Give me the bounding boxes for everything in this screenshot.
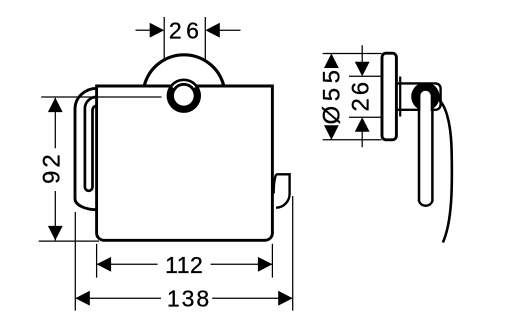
front view: right arm end piece	[276, 174, 290, 207]
front view: knob inner circle	[174, 86, 194, 106]
dim 138: extension lines	[74, 212, 76, 311]
side view: guard wire	[438, 99, 452, 243]
front view: right arm end inner edge	[274, 174, 277, 193]
front view: left roll-holder hook inner slot	[85, 97, 97, 191]
side view: wall plate	[382, 53, 396, 140]
front view: knob white separation arc	[173, 82, 195, 87]
side view: hub housing	[398, 83, 441, 109]
dim 92: bottom extension line	[39, 240, 99, 242]
dim 138: left arrow	[75, 291, 90, 306]
dim 92: top arrow	[48, 98, 63, 113]
dim 112: extension lines	[96, 244, 98, 278]
front view: spindle line behind cover (92 top extension)	[41, 96, 161, 98]
side view: arm	[419, 94, 432, 206]
dim 26 top: extension lines	[163, 17, 165, 60]
dim 92: dimension line	[54, 98, 56, 149]
dim 138: line segments	[75, 297, 161, 299]
dim 112: right arrow	[258, 257, 273, 272]
dim 26 side: bottom tail and arrow	[361, 131, 363, 147]
dim 92: bottom arrow	[48, 226, 63, 241]
front view: dome arc over spindle	[144, 55, 223, 85]
dim Ø55: top arrow	[324, 54, 339, 69]
svg-text:138: 138	[167, 286, 211, 312]
dim 26 top: right tail and arrow	[219, 29, 241, 31]
dim Ø55: line segments	[330, 54, 332, 68]
dim 26 side: extension lines	[349, 75, 382, 77]
svg-text:Ø55: Ø55	[318, 66, 345, 125]
svg-text:92: 92	[38, 151, 65, 184]
dim Ø55: bottom arrow	[324, 125, 339, 140]
dim 26 side: top tail and arrow	[361, 45, 363, 62]
front view: left roll-holder hook outer edge	[75, 88, 97, 209]
svg-text:26: 26	[347, 79, 374, 112]
side view: arm slot (white)	[420, 91, 430, 116]
front view: cover plate rectangle	[97, 86, 273, 240]
dim 26 top: left tail and arrow	[136, 29, 152, 31]
side view: collar edge line	[399, 77, 401, 117]
svg-text:112: 112	[165, 252, 203, 278]
dim Ø55: extension lines	[323, 53, 382, 55]
svg-text:26: 26	[169, 18, 204, 44]
dim 112: line segments	[97, 263, 158, 265]
side view: pivot disc	[411, 82, 439, 110]
front view: knob disc	[167, 79, 201, 113]
dim 138: right arrow	[278, 291, 293, 306]
dim 112: left arrow	[97, 257, 112, 272]
